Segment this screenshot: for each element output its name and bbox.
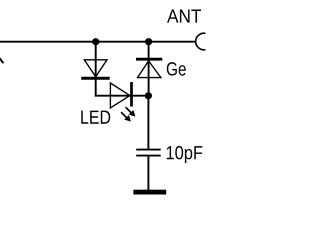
node junction (top wire / Ge diode branch) [145,38,152,45]
diode D1 triangle (pointing down) [84,60,107,77]
node junction (top wire / left diode branch) [92,38,99,45]
wire (dot to diode D1) [95,42,97,78]
diode D1 cathode bar [81,77,110,80]
label Ge [167,62,186,75]
label 10pF [167,146,203,163]
wire (dot to Ge cathode bar) [148,42,150,96]
wire (junction down to capacitor) [147,96,149,149]
capacitor C1 top plate [136,149,161,151]
label ANT [167,10,201,23]
antenna terminal ANT (open half-circle connector) [196,33,206,50]
wire (D1 cathode down then right to LED anode) [96,78,149,96]
ground (earth bar) [133,190,166,195]
node junction (LED cathode / Ge anode / capacitor) [145,92,152,99]
label LED [81,111,110,124]
LED triangle (pointing right) [110,83,130,108]
diode Ge cathode bar (top) [136,58,162,61]
LED light arrow 1 [126,107,136,116]
wire (cropped diagonal stub at left edge) [0,57,3,63]
capacitor C1 bottom plate [136,155,161,157]
LED cathode bar [130,82,133,107]
wire (top horizontal bus from left edge to antenna terminal) [0,41,196,43]
wire (capacitor to ground) [147,157,149,191]
LED light arrow 2 [121,112,131,121]
diode Ge triangle (pointing up) [138,61,161,78]
